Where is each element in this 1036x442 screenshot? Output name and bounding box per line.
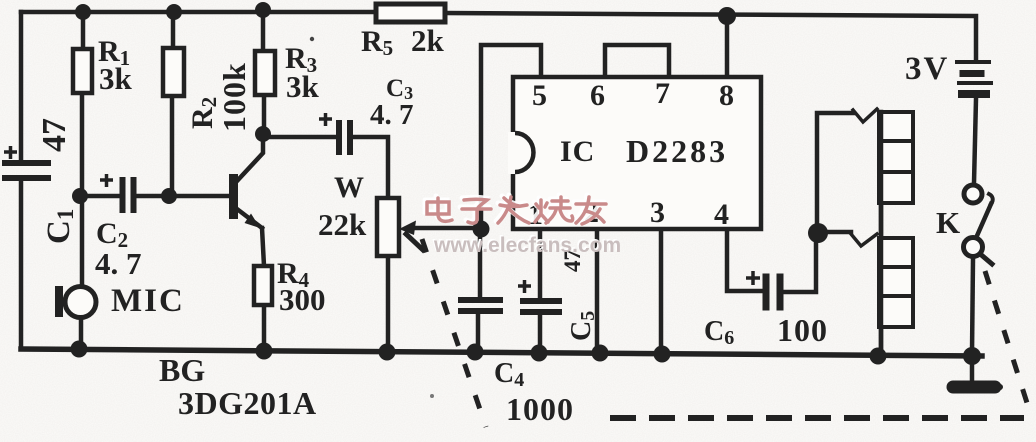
- svg-text:8: 8: [719, 79, 734, 112]
- svg-text:1000: 1000: [506, 391, 574, 427]
- svg-text:100: 100: [777, 312, 828, 348]
- svg-text:BG: BG: [159, 352, 205, 388]
- svg-text:K: K: [936, 205, 960, 240]
- svg-text:3V: 3V: [905, 51, 949, 87]
- svg-text:47: 47: [36, 118, 73, 152]
- svg-text:100k: 100k: [216, 62, 252, 132]
- svg-text:3k: 3k: [286, 69, 320, 104]
- svg-text:3k: 3k: [99, 61, 133, 96]
- svg-text:W: W: [334, 171, 364, 204]
- svg-text:7: 7: [655, 77, 670, 110]
- svg-text:4. 7: 4. 7: [370, 99, 414, 131]
- svg-text:22k: 22k: [318, 207, 367, 242]
- svg-text:6: 6: [590, 79, 605, 112]
- svg-text:MIC: MIC: [111, 283, 185, 319]
- svg-text:5: 5: [532, 79, 547, 112]
- svg-text:www.elecfans.com: www.elecfans.com: [433, 234, 621, 257]
- svg-text:2k: 2k: [411, 23, 445, 58]
- svg-text:D2283: D2283: [626, 133, 728, 169]
- svg-text:3: 3: [650, 196, 665, 229]
- svg-text:4: 4: [714, 198, 729, 231]
- svg-text:3DG201A: 3DG201A: [178, 385, 317, 421]
- svg-text:4. 7: 4. 7: [95, 246, 142, 281]
- svg-text:300: 300: [279, 282, 326, 317]
- svg-text:IC: IC: [560, 135, 595, 168]
